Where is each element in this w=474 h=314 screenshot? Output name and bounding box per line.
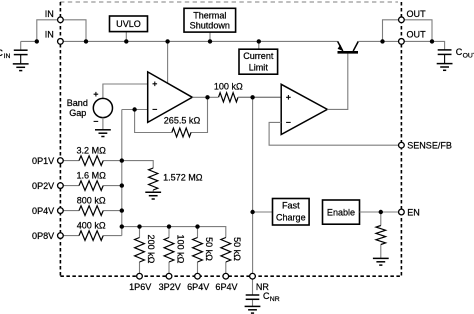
wire bank col 1P6V [139,227,141,238]
svg-text:Fast: Fast [282,200,300,210]
pin OUT 2 [399,39,405,45]
wire input rail [60,40,337,42]
svg-text:IN: IN [45,30,54,40]
svg-text:Band: Band [67,98,88,108]
wire buffer feedback to SENSE [269,122,398,145]
wire 0P2V row [60,185,121,187]
node J13 [120,183,124,187]
svg-text:400 kΩ: 400 kΩ [77,220,106,230]
node J16 [137,224,141,228]
wire feedback loop [135,97,208,132]
capacitor COUT [438,50,452,64]
resistor EN pulldown [376,226,386,245]
pin IN 1 [58,17,64,23]
node J14 [120,208,124,212]
chip boundary right (dashed) [400,2,402,276]
pin 3P2V [166,273,172,279]
transistor pass PNP [338,41,359,52]
svg-text:265.5 kΩ: 265.5 kΩ [164,115,201,125]
svg-text:Current: Current [243,51,274,61]
node J12 [120,158,124,162]
pin 6P4V [195,273,201,279]
resistor R 400k [79,231,103,241]
capacitor CNR [246,295,260,299]
wire 0P8V row [60,235,121,237]
wire bank col 6P4V2 [225,262,227,276]
resistor 100 k&#937; (3P2V) [164,238,174,263]
node J6 [257,39,261,43]
wire bank col 6P4V [197,227,199,238]
pin 0P8V [58,233,64,239]
wire to fast charge [253,211,273,213]
svg-text:6P4V: 6P4V [215,282,237,292]
svg-text:OUT: OUT [407,30,427,40]
pin IN 2 [58,39,64,45]
resistor 100 k [219,93,239,102]
node J11 [132,107,136,111]
wire IN1 loop to input rail [37,20,86,42]
pin EN [399,209,405,215]
node J3 [124,39,128,43]
resistor R 1.6M [79,181,103,191]
ground (1.572M) [145,192,161,199]
resistor 1.572 M [149,168,158,190]
chip boundary bottom (dashed) [60,275,401,277]
svg-text:EN: EN [407,207,420,217]
chip boundary top (gray dashed) [60,1,398,3]
node J1 [35,39,39,43]
node J18 [195,224,199,228]
wire enable to EN pin [360,211,399,213]
wire to CIN [21,41,37,50]
wire collector to out rail [358,41,444,50]
ground (COUT) [437,64,453,71]
svg-text:3P2V: 3P2V [159,282,181,292]
node J10 [250,95,254,99]
node J9 [205,95,209,99]
svg-text:OUT: OUT [407,9,427,19]
svg-text:1.6 MΩ: 1.6 MΩ [77,170,107,180]
svg-text:100 kΩ: 100 kΩ [214,82,243,92]
svg-text:0P1V: 0P1V [32,156,54,166]
resistor R 800k [79,206,103,216]
resistor 265.5 k [172,128,191,137]
svg-text:Shutdown: Shutdown [190,21,230,31]
ground (EN pulldown) [373,258,389,265]
block Fast Charge [273,199,310,226]
wire thermal-shutdown stub [209,32,211,41]
wire bank col 3P2V [168,227,170,238]
svg-text:OUT: OUT [463,52,474,59]
wire buffer + input [238,96,281,98]
svg-text:50 kΩ: 50 kΩ [232,237,242,261]
block UVLO [110,16,148,32]
node J7 [380,39,384,43]
wire current-limit stub [258,41,260,49]
pin 6P4V2 [223,273,229,279]
svg-text:Limit: Limit [249,63,269,73]
resistor 50 k&#937; (6P4V2) [221,238,231,263]
pin 0P4V [58,208,64,214]
resistor R 3.2M [79,156,103,166]
svg-text:800 kΩ: 800 kΩ [77,195,106,205]
svg-text:UVLO: UVLO [116,19,141,29]
wire inverting input node [122,109,148,111]
op-amp buffer [281,84,327,134]
wire OUT1 loop [383,20,433,42]
svg-text:1.572 MΩ: 1.572 MΩ [163,172,203,182]
band gap + mark [94,92,99,97]
node J19 [250,210,254,214]
node J15 [120,224,124,228]
resistor 50 k&#937; (6P4V) [193,238,203,263]
block Thermal Shutdown [184,8,236,32]
wire buffer output to pass base [327,53,348,109]
svg-text:0P2V: 0P2V [32,181,54,191]
svg-text:IN: IN [45,9,54,19]
svg-text:50 kΩ: 50 kΩ [204,237,214,261]
svg-text:200 kΩ: 200 kΩ [146,235,156,264]
pin 0P2V [58,183,64,189]
svg-text:IN: IN [4,53,11,60]
node J4 [165,39,169,43]
pin OUT 1 [399,17,405,23]
wire NR vertical [252,97,254,276]
svg-text:1P6V: 1P6V [129,282,151,292]
svg-text:NR: NR [270,296,280,303]
ground (band gap) [95,130,111,137]
svg-text:0P8V: 0P8V [32,231,54,241]
wire NR to CNR [252,279,254,306]
svg-text:0P4V: 0P4V [32,206,54,216]
node J8 [430,39,434,43]
error amp + mark [153,82,158,87]
buffer + mark [286,95,291,100]
wire feedback bus vertical [121,110,123,236]
op-amp error amplifier [148,72,193,123]
wire band-gap to + input [103,84,148,98]
wire bank bus [122,227,226,238]
wire band-gap to ground [102,118,104,130]
svg-text:Thermal: Thermal [193,11,226,21]
ground (CIN) [13,64,29,71]
svg-text:100 kΩ: 100 kΩ [175,235,185,264]
node J5 [208,39,212,43]
buffer - mark [286,121,291,123]
node J17 [167,224,171,228]
band gap - mark [94,120,99,122]
svg-text:3.2 MΩ: 3.2 MΩ [77,145,107,155]
node J20 [379,210,383,214]
ground (CNR) [245,306,261,313]
pin NR [250,273,256,279]
wire 0P1V row [60,160,121,162]
wire error-amp supply [167,41,169,83]
svg-text:Gap: Gap [69,108,86,118]
wire to 1.572M [122,161,153,193]
resistor 200 k&#937; (1P6V) [135,238,145,263]
wire EN resistor stubs [380,212,382,258]
pin 1P6V [137,273,143,279]
chip boundary left (dashed) [59,2,61,276]
svg-text:Enable: Enable [327,207,355,217]
block Current Limit [239,49,278,74]
svg-text:6P4V: 6P4V [187,282,209,292]
error amp - mark [153,108,158,110]
pin SENSE/FB [399,142,405,148]
wire 0P4V row [60,210,121,212]
voltage source band gap [93,98,112,117]
svg-text:Charge: Charge [276,213,306,223]
node J2 [84,39,88,43]
wire error amp output [192,96,281,98]
capacitor CIN [14,50,28,64]
pin 0P1V [58,158,64,164]
block Enable [323,200,360,224]
svg-text:SENSE/FB: SENSE/FB [407,140,452,150]
wire UVLO stub [125,32,127,42]
